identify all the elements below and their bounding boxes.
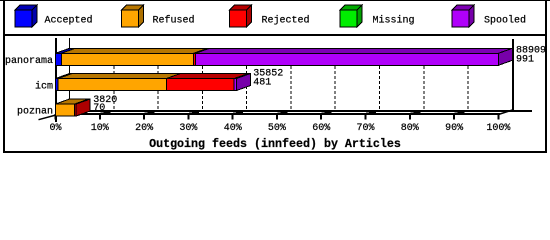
svg-text:20%: 20% (135, 123, 153, 134)
svg-text:80%: 80% (401, 123, 419, 134)
svg-text:Accepted: Accepted (45, 14, 93, 26)
svg-text:Rejected: Rejected (262, 14, 310, 26)
bar segment blue panorama (56, 48, 76, 53)
tick 40% (232, 114, 234, 120)
svg-text:30%: 30% (179, 123, 197, 134)
outer border right (545, 0, 547, 153)
svg-text:poznan: poznan (17, 107, 53, 118)
legend cube Accepted (15, 5, 37, 10)
gridline 60% (dashed) (334, 50, 336, 109)
gridline 20% (dashed) (157, 50, 159, 109)
legend separator line (3, 34, 546, 36)
outer border bottom (3, 151, 547, 153)
svg-text:Refused: Refused (153, 14, 195, 26)
tick 100% (497, 114, 499, 120)
100% gridline (solid) (512, 39, 514, 110)
gridline 40% (dashed) (246, 50, 248, 109)
outer border left (3, 0, 5, 153)
svg-text:100%: 100% (486, 123, 510, 134)
svg-text:90%: 90% (445, 123, 463, 134)
gridline 30% (dashed) (201, 50, 203, 109)
bar segment red panorama (194, 48, 210, 53)
svg-text:panorama: panorama (5, 56, 53, 67)
svg-text:10%: 10% (91, 123, 109, 134)
x-axis back line (69, 110, 532, 112)
bar segment purple panorama (196, 48, 513, 53)
bar segment blue icm (56, 74, 73, 79)
outer border top (0, 0, 550, 1)
legend cube Rejected (230, 5, 252, 10)
tick 70% (365, 114, 367, 120)
bar segment orange poznan (56, 99, 89, 104)
tick 20% (143, 114, 145, 120)
bar segment purple icm (234, 74, 250, 79)
gridline 70% (dashed) (379, 50, 381, 109)
svg-text:481: 481 (253, 77, 271, 88)
tick 0% (55, 114, 57, 120)
svg-text:icm: icm (35, 81, 53, 93)
svg-text:70: 70 (93, 103, 105, 114)
tick 60% (320, 114, 322, 120)
0% back axis line (69, 38, 70, 111)
x-axis front line (55, 113, 500, 115)
svg-text:Outgoing feeds (innfeed) by Ar: Outgoing feeds (innfeed) by Articles (149, 137, 401, 151)
gridline 80% (dashed) (423, 50, 425, 109)
svg-text:991: 991 (516, 54, 534, 65)
legend cube Missing (340, 5, 362, 10)
legend cube Refused (122, 5, 144, 10)
bar segment orange icm (58, 74, 180, 79)
gridline 10% (dashed) (113, 50, 115, 109)
tick 80% (409, 114, 411, 120)
tick 30% (187, 114, 189, 120)
svg-text:40%: 40% (224, 123, 242, 134)
svg-text:70%: 70% (356, 123, 374, 134)
svg-text:Spooled: Spooled (484, 14, 526, 26)
svg-text:Missing: Missing (373, 14, 415, 26)
svg-text:60%: 60% (312, 123, 330, 134)
tick 90% (453, 114, 455, 120)
gridline 50% (dashed) (290, 50, 292, 109)
bar segment red poznan (75, 99, 91, 104)
svg-text:50%: 50% (268, 123, 286, 134)
tick 50% (276, 114, 278, 120)
gridline 90% (dashed) (467, 50, 469, 109)
axis origin diagonal (39, 115, 57, 120)
bar segment red icm (166, 74, 248, 79)
bar segment orange panorama (61, 48, 207, 53)
y-axis line (55, 38, 57, 122)
legend cube Spooled (452, 5, 474, 10)
tick 10% (99, 114, 101, 120)
svg-text:0%: 0% (49, 123, 61, 134)
